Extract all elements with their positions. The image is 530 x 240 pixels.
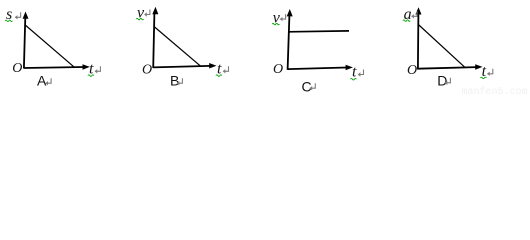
graph C horizontal t-axis	[288, 65, 353, 71]
graph B horizontal t-axis	[153, 63, 216, 69]
return mark after D	[445, 78, 451, 85]
grammar squiggle under v	[272, 23, 279, 25]
svg-text:O: O	[273, 62, 283, 77]
grammar squiggle under s	[5, 20, 12, 22]
svg-text:C: C	[302, 79, 312, 95]
svg-text:manfen5.com: manfen5.com	[462, 86, 528, 95]
grammar squiggle under t	[216, 75, 222, 77]
return mark after t	[487, 69, 493, 76]
graph D vertical a-axis	[415, 7, 421, 69]
graph A vertical s-axis	[23, 12, 29, 69]
return mark after s	[15, 12, 21, 19]
graph D horizontal t-axis	[418, 64, 483, 70]
graph A horizontal t-axis	[24, 64, 90, 70]
grammar squiggle under t	[480, 77, 486, 79]
return mark after B	[177, 78, 183, 85]
graph C plotted constant line	[289, 30, 350, 33]
return mark after A	[45, 78, 51, 85]
return mark after t	[358, 70, 364, 77]
graph A plotted decreasing line	[25, 25, 74, 67]
return mark after a	[411, 11, 417, 18]
return mark after C	[310, 83, 316, 90]
return mark after v	[144, 10, 150, 17]
grammar squiggle under t	[88, 75, 94, 77]
svg-text:O: O	[12, 61, 22, 76]
graph B vertical v-axis	[152, 7, 158, 68]
svg-text:O: O	[142, 63, 152, 78]
grammar squiggle under a	[403, 20, 410, 22]
svg-text:B: B	[170, 73, 179, 89]
graph C vertical v-axis	[287, 9, 293, 70]
return mark after t	[95, 66, 101, 73]
return mark after v	[280, 14, 286, 21]
svg-text:A: A	[37, 73, 47, 89]
graph B plotted decreasing line	[154, 27, 201, 67]
return mark after t	[223, 66, 229, 73]
svg-text:t: t	[352, 64, 357, 81]
grammar squiggle under v	[136, 18, 143, 20]
svg-text:D: D	[437, 73, 447, 89]
graph D plotted decreasing line	[418, 24, 465, 67]
svg-text:O: O	[407, 63, 417, 78]
grammar squiggle under t	[350, 78, 356, 80]
